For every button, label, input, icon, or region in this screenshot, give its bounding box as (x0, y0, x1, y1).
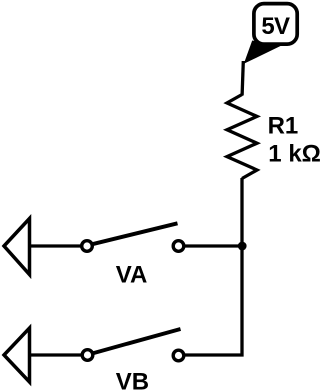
svg-text:VA: VA (116, 261, 148, 288)
wire VA terminal to switch (30, 244, 82, 247)
node junction (238, 242, 247, 251)
switch VA (82, 223, 184, 251)
input terminal VA (4, 219, 30, 275)
wire resistor to node (240, 178, 243, 247)
wire VB terminal to switch (30, 353, 83, 356)
switch VB (82, 329, 184, 361)
wire 5V flag to resistor (242, 61, 243, 96)
svg-text:5V: 5V (261, 13, 290, 40)
svg-text:R1: R1 (268, 113, 299, 140)
resistor R1 (227, 95, 257, 179)
svg-text:1 kΩ: 1 kΩ (268, 140, 320, 167)
wire node to VB corner (185, 246, 243, 355)
input terminal VB (4, 328, 30, 382)
svg-text:VB: VB (116, 369, 149, 390)
power flag 5V (244, 4, 297, 64)
wire VA switch to node (184, 244, 242, 247)
